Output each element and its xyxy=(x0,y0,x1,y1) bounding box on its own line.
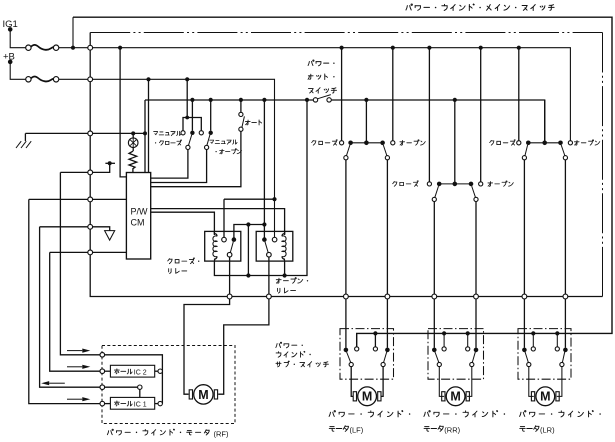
svg-text:CM: CM xyxy=(131,218,145,228)
svg-text:P/W: P/W xyxy=(131,207,149,217)
svg-text:M: M xyxy=(540,390,550,404)
svg-text:(LR): (LR) xyxy=(540,425,555,434)
svg-text:M: M xyxy=(450,390,460,404)
svg-text:(LF): (LF) xyxy=(350,425,364,434)
svg-text:(RR): (RR) xyxy=(444,425,460,434)
svg-text:IC 2: IC 2 xyxy=(134,370,147,377)
svg-text:M: M xyxy=(362,390,372,404)
svg-text:IC 1: IC 1 xyxy=(134,402,147,409)
svg-text:(RF): (RF) xyxy=(214,430,229,439)
svg-text:M: M xyxy=(198,388,208,402)
